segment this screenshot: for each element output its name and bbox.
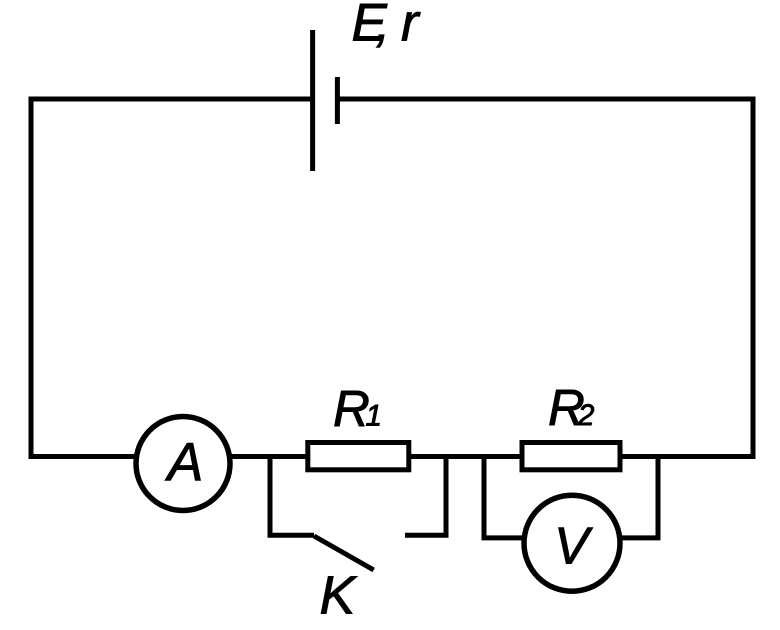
wire top-right + right side + bottom-right (battery to R2)	[337, 99, 753, 457]
ammeter A circle	[136, 417, 230, 511]
wire top-left + left side + bottom-left (battery to ammeter)	[31, 99, 313, 457]
battery E,r short plate (negative)	[335, 77, 340, 124]
wire ammeter to R1	[230, 454, 306, 459]
switch K blade (open)	[314, 536, 374, 570]
switch K left branch wire	[270, 457, 314, 536]
svg-text:A: A	[165, 434, 204, 493]
svg-text:2: 2	[577, 399, 594, 432]
svg-text:1: 1	[366, 400, 382, 433]
voltmeter V right branch wire	[621, 457, 658, 538]
svg-text:V: V	[554, 518, 593, 576]
wire R1 to R2	[411, 454, 520, 459]
svg-text:K: K	[320, 566, 358, 625]
svg-text:r: r	[401, 0, 421, 52]
battery E,r long plate (positive)	[310, 30, 315, 171]
resistor R2	[522, 443, 620, 470]
svg-text:,: ,	[376, 0, 391, 52]
svg-text:R: R	[333, 380, 370, 437]
switch K right branch wire	[405, 457, 446, 536]
voltmeter V left branch wire	[484, 457, 523, 538]
voltmeter V circle	[524, 495, 620, 591]
resistor R1	[308, 443, 409, 470]
